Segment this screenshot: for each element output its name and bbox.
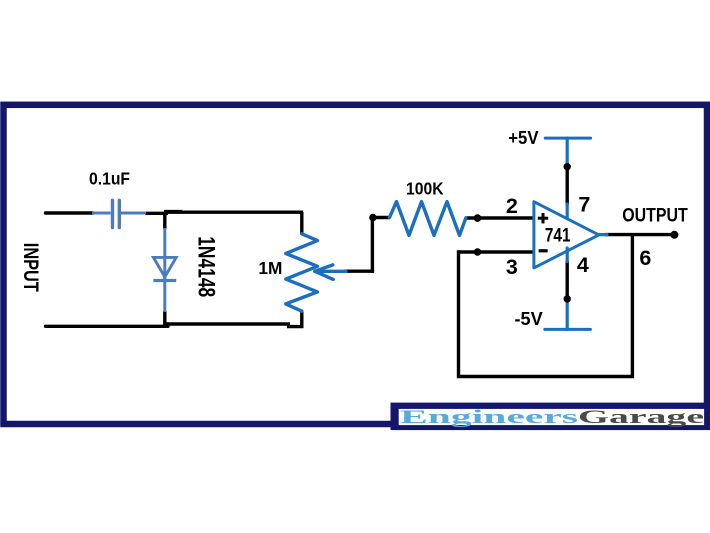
svg-text:OUTPUT: OUTPUT xyxy=(622,205,688,227)
svg-text:4: 4 xyxy=(577,253,589,277)
svg-text:-5V: -5V xyxy=(515,308,544,329)
svg-text:+5V: +5V xyxy=(508,127,539,148)
svg-text:3: 3 xyxy=(506,255,518,279)
svg-text:741: 741 xyxy=(545,224,571,246)
svg-text:INPUT: INPUT xyxy=(19,243,42,292)
svg-text:7: 7 xyxy=(578,192,590,216)
svg-text:1N4148: 1N4148 xyxy=(193,236,220,297)
svg-text:6: 6 xyxy=(639,246,651,270)
svg-text:Garage: Garage xyxy=(578,407,704,428)
svg-text:0.1uF: 0.1uF xyxy=(89,169,130,189)
svg-text:2: 2 xyxy=(506,194,518,218)
svg-text:Engineers: Engineers xyxy=(400,407,578,428)
svg-text:1M: 1M xyxy=(258,258,282,278)
svg-text:100K: 100K xyxy=(406,179,444,199)
